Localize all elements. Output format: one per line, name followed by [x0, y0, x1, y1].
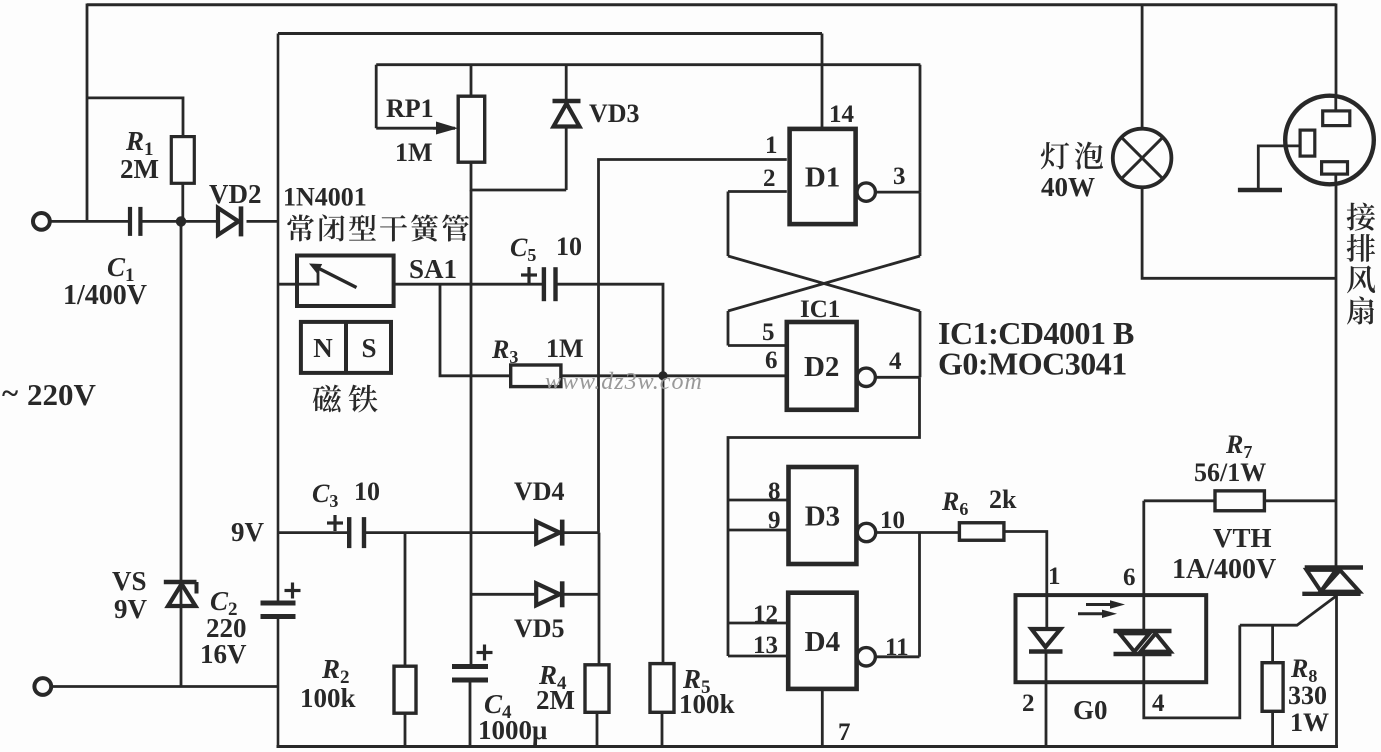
svg-text:S: S — [361, 333, 376, 363]
svg-text:1/400V: 1/400V — [63, 280, 147, 311]
diode VD4 — [536, 522, 560, 544]
svg-text:16V: 16V — [200, 639, 247, 669]
svg-text:10: 10 — [556, 232, 582, 261]
wire right rail middle — [1335, 184, 1338, 568]
light arrows — [1086, 603, 1114, 606]
svg-text:2: 2 — [763, 165, 776, 192]
wire top terminal to C1 — [50, 220, 130, 223]
wire bottom terminal to box — [51, 685, 278, 688]
capacitor C5 — [542, 267, 546, 301]
wire pin 5 — [728, 344, 787, 347]
wire R6 to opto pin 1 — [1004, 532, 1047, 596]
svg-text:10: 10 — [354, 477, 380, 506]
diode VD2 1N4001 — [218, 208, 239, 235]
resistor R2 — [394, 666, 416, 713]
wire R1 top branch — [87, 98, 183, 137]
svg-text:14: 14 — [829, 101, 855, 128]
resistor R4 — [585, 665, 609, 713]
svg-text:1A/400V: 1A/400V — [1172, 554, 1276, 585]
capacitor C2 electrolytic — [261, 601, 296, 606]
wire second top rail to pin 14 — [278, 32, 822, 35]
wire pin 9 — [728, 529, 789, 532]
potentiometer RP1 — [470, 65, 473, 97]
LED inside optocoupler — [1045, 595, 1048, 628]
wire pin 8 — [728, 499, 789, 502]
svg-text:VD5: VD5 — [514, 614, 565, 643]
wire right rail lower — [1335, 594, 1338, 747]
svg-text:D2: D2 — [804, 351, 839, 383]
resistor R5 — [650, 664, 674, 713]
svg-text:www.dz3w.com: www.dz3w.com — [545, 369, 703, 395]
NOR gate D2 — [787, 322, 857, 410]
svg-text:1M: 1M — [395, 138, 433, 167]
wire D1 output up to oscillator top — [919, 65, 922, 192]
resistor R6 — [959, 523, 1004, 541]
svg-text:12: 12 — [753, 601, 778, 628]
svg-text:11: 11 — [885, 634, 909, 661]
svg-text:2: 2 — [1022, 690, 1035, 717]
node junction C1-R1-VS — [176, 216, 186, 226]
svg-text:1W: 1W — [1290, 708, 1329, 737]
capacitor C4 electrolytic — [452, 664, 488, 669]
fan socket — [1285, 96, 1374, 185]
node junction C5-R3-R5 — [658, 371, 667, 380]
wire VS branch vertical — [180, 221, 183, 686]
svg-text:D3: D3 — [805, 501, 840, 533]
svg-text:N: N — [313, 333, 333, 363]
resistor R3 — [511, 365, 561, 387]
wire opto pin 4 — [1144, 625, 1240, 718]
svg-text:2k: 2k — [989, 485, 1017, 514]
wire socket earth — [1258, 146, 1300, 188]
svg-text:220V: 220V — [27, 377, 97, 412]
svg-text:8: 8 — [768, 478, 781, 505]
resistor R7 — [1215, 491, 1264, 511]
svg-text:13: 13 — [753, 632, 778, 659]
wire outputs 10-11 tie — [918, 533, 921, 657]
output bubble D1 pin 3 — [857, 183, 875, 201]
reed switch SA1 — [297, 256, 394, 307]
svg-text:G0:MOC3041: G0:MOC3041 — [938, 346, 1127, 382]
svg-text:100k: 100k — [679, 689, 735, 719]
svg-text:40W: 40W — [1041, 172, 1095, 202]
svg-text:2M: 2M — [120, 154, 159, 184]
wire opto pin 2 down — [1045, 682, 1048, 746]
svg-text:VD2: VD2 — [209, 179, 262, 209]
svg-text:56/1W: 56/1W — [1194, 458, 1266, 487]
output bubble D4 pin 11 — [857, 648, 875, 666]
svg-text:4: 4 — [889, 348, 902, 375]
wire inner oscillator top line — [376, 63, 920, 66]
svg-text:IC1: IC1 — [800, 296, 840, 323]
svg-text:7: 7 — [838, 719, 851, 746]
wire R4 branch — [598, 533, 601, 665]
wire box left edge upper — [277, 34, 280, 604]
wire top supply rail — [87, 3, 1336, 6]
wire C1 to VD2 with junction — [140, 220, 217, 223]
terminal input top — [33, 213, 50, 230]
svg-text:1000μ: 1000μ — [478, 715, 547, 745]
triac VTH — [1305, 565, 1363, 569]
lamp 40W — [1141, 4, 1144, 129]
terminal input bottom — [34, 678, 51, 695]
wire pin 2 — [728, 190, 787, 193]
svg-text:6: 6 — [765, 347, 778, 374]
label lamp — [1041, 142, 1069, 169]
svg-text:5: 5 — [762, 319, 775, 346]
svg-text:9V: 9V — [231, 517, 265, 547]
wire bottom rail — [277, 745, 1339, 748]
resistor R8 — [1271, 625, 1274, 663]
photo triac inside optocoupler — [1114, 629, 1172, 633]
svg-text:330: 330 — [1288, 681, 1327, 710]
diode VD3 — [565, 65, 568, 99]
svg-text:10: 10 — [880, 507, 905, 534]
svg-text:VD4: VD4 — [514, 477, 565, 506]
wire R3 to pin 6 — [561, 374, 787, 377]
wire junction down to R5 — [662, 376, 665, 664]
resistor R1 — [171, 137, 194, 184]
wire potentiometer line down through junctions — [470, 190, 473, 665]
NOR gate D1 — [790, 129, 856, 224]
output bubble D2 pin 4 — [857, 368, 875, 386]
svg-text:6: 6 — [1123, 564, 1136, 591]
svg-text:1N4001: 1N4001 — [283, 183, 367, 212]
svg-text:SA1: SA1 — [409, 254, 457, 284]
svg-text:VTH: VTH — [1213, 523, 1272, 553]
svg-text:1: 1 — [765, 132, 778, 159]
NOR gate D4 — [788, 593, 856, 689]
wire pin 7 ground — [821, 689, 824, 747]
svg-text:D4: D4 — [805, 626, 840, 658]
label magnet — [313, 385, 341, 413]
wire lamp bottom — [1142, 187, 1336, 278]
NOR gate D3 — [789, 467, 857, 564]
wire into SA1 — [278, 283, 299, 286]
wire pin 14 — [821, 34, 824, 129]
wire box left edge lower — [277, 617, 280, 748]
wire D1 pin1 long branch — [599, 160, 787, 533]
wire pin 12 — [728, 622, 788, 625]
wire left outer vertical — [86, 4, 89, 222]
wire SA1 to C5 — [394, 283, 544, 286]
svg-text:9: 9 — [768, 507, 781, 534]
diode VD5 — [471, 593, 536, 596]
wire pin 13 — [728, 655, 788, 658]
zener diode VS — [168, 584, 196, 606]
label reed switch type — [287, 215, 314, 242]
wire triac gate — [1240, 596, 1337, 625]
svg-text:1M: 1M — [546, 334, 584, 363]
wire cross coupling latch — [727, 192, 730, 257]
wire C5 to junction down — [556, 284, 664, 376]
label fan socket — [1347, 203, 1375, 231]
svg-text:RP1: RP1 — [386, 94, 434, 123]
wire SA1 branch down to R3 — [440, 284, 511, 376]
svg-text:1: 1 — [1048, 563, 1061, 590]
wire 9V rail — [278, 531, 349, 534]
wire C3 right to VD4 — [364, 531, 536, 534]
capacitor C1 — [128, 207, 132, 236]
svg-text:G0: G0 — [1073, 695, 1108, 725]
wire R2 branch — [404, 533, 407, 667]
wire RP1 bottom — [471, 162, 566, 190]
svg-text:9V: 9V — [114, 594, 148, 624]
output bubble D3 pin 10 — [857, 523, 875, 541]
svg-text:VS: VS — [112, 566, 147, 596]
svg-text:3: 3 — [893, 163, 906, 190]
capacitor C3 — [347, 517, 351, 548]
svg-text:100k: 100k — [300, 683, 356, 713]
svg-text:~: ~ — [2, 375, 18, 410]
svg-text:D1: D1 — [805, 162, 840, 194]
svg-text:4: 4 — [1152, 690, 1165, 717]
optocoupler G0 MOC3041 — [1016, 595, 1207, 682]
wire D2 output feedback to D3 D4 inputs — [728, 377, 920, 656]
wire right rail upper — [1335, 4, 1338, 97]
magnet N S box — [301, 322, 391, 373]
svg-text:2M: 2M — [536, 685, 575, 715]
ground symbol — [1238, 188, 1282, 193]
svg-text:VD3: VD3 — [589, 99, 640, 128]
